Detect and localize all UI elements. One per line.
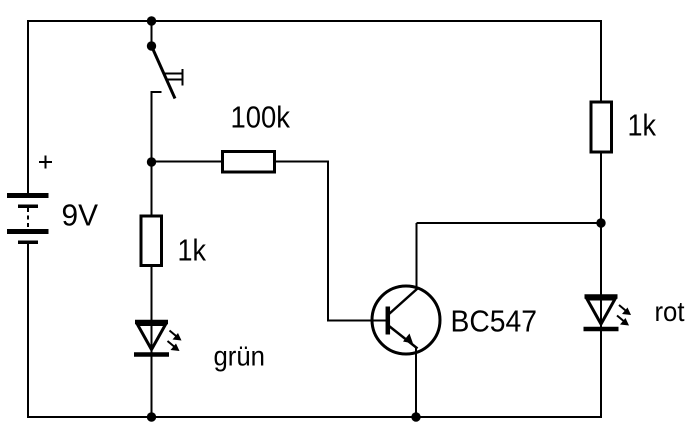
battery plus sign: [39, 156, 52, 169]
LED1 light arrow 1: [170, 331, 182, 341]
resistor R3 100k body: [223, 152, 275, 173]
transistor Q1 base bar: [386, 307, 391, 335]
svg-text:100k: 100k: [231, 100, 291, 135]
svg-text:grün: grün: [214, 341, 266, 372]
wire right rail mid (R2 through LED2 to bottom rail): [600, 151, 602, 418]
wire top rail (V+): [27, 20, 602, 22]
LED2 red triangle: [587, 299, 615, 324]
LED2 red cathode bar: [584, 327, 619, 332]
LED1 green anode bar: [135, 320, 168, 325]
svg-text:BC547: BC547: [451, 304, 538, 339]
wire left rail upper (battery + lead): [27, 20, 29, 195]
switch S1 actuator: [163, 69, 183, 86]
resistor R1 1k body: [141, 216, 162, 266]
LED1 green triangle: [138, 325, 166, 350]
transistor Q1 collector stroke: [389, 289, 418, 315]
wire bottom rail (ground return): [27, 416, 602, 418]
battery B1 plate long bottom: [7, 229, 49, 234]
node junction top rail / switch: [147, 16, 156, 25]
transistor Q1 emitter arrowhead: [403, 334, 413, 344]
LED2 light arrow 2: [617, 316, 629, 326]
svg-text:1k: 1k: [178, 233, 207, 268]
LED1 light arrow 2: [168, 341, 180, 351]
transistor Q1 emitter stroke: [389, 326, 418, 349]
switch S1 lever: [152, 46, 176, 99]
resistor R2 1k body: [591, 102, 612, 152]
wire collector node to right rail: [417, 222, 602, 224]
wire left rail lower (battery - lead): [27, 243, 29, 418]
wire R3 to base corner: [274, 162, 386, 321]
wire node A through R1 and LED1 to bottom rail: [151, 162, 153, 417]
battery B1 plate long top: [7, 193, 49, 198]
node switch pivot: [147, 41, 156, 50]
battery B1 plate short top: [18, 205, 38, 209]
wire right rail upper: [600, 20, 602, 103]
node A junction (switch / R1 / R3): [147, 157, 156, 166]
svg-text:9V: 9V: [62, 198, 99, 233]
transistor Q1 BC547 circle: [372, 286, 440, 354]
node collector junction on right rail: [596, 218, 605, 227]
node bottom rail emitter junction: [411, 412, 420, 421]
node bottom rail LED1 junction: [147, 412, 156, 421]
LED1 green cathode bar: [134, 352, 169, 357]
wire collector vertical: [416, 223, 418, 290]
battery B1 dashed cell link: [27, 208, 29, 229]
wire switch drop from top rail: [151, 21, 153, 46]
wire node A to R3 (100k): [152, 161, 224, 163]
battery B1 plate short bottom: [18, 241, 38, 245]
LED2 light arrow 1: [619, 305, 631, 315]
wire switch lower stub to node A: [152, 92, 162, 162]
svg-text:rot: rot: [655, 296, 685, 327]
LED2 red anode bar: [585, 294, 618, 299]
wire emitter vertical: [415, 348, 417, 417]
svg-text:1k: 1k: [628, 108, 657, 143]
